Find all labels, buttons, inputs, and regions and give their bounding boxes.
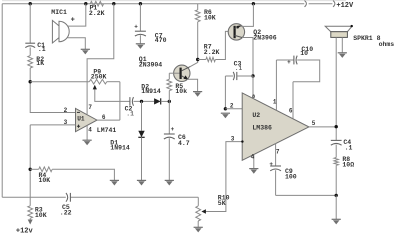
- svg-text:470: 470: [155, 37, 167, 44]
- svg-text:1: 1: [273, 98, 277, 105]
- wire +12V top rail: [2, 3, 332, 5]
- svg-text:SPKR1 8: SPKR1 8: [353, 35, 380, 42]
- ground MIC1: [81, 49, 90, 54]
- svg-text:LM386: LM386: [252, 124, 272, 131]
- wire U1 pin4 to ground: [86, 126, 88, 141]
- ground D1: [137, 180, 146, 185]
- svg-text:4.7: 4.7: [178, 140, 190, 147]
- svg-text:10: 10: [300, 50, 308, 57]
- svg-text:7: 7: [88, 104, 92, 111]
- transistor Q2: [228, 24, 277, 42]
- wire R3 arrow to +12v: [28, 218, 33, 224]
- wire rail to R3: [29, 197, 31, 206]
- resistor R3: [28, 206, 47, 219]
- node +12v label: [16, 227, 34, 235]
- svg-text:+: +: [171, 126, 175, 133]
- svg-text:2: 2: [230, 103, 234, 110]
- wire node to C6: [168, 101, 170, 134]
- wire Q1 collector: [190, 60, 198, 67]
- wire U2 pin6 up: [292, 82, 294, 119]
- wire U1 output pin6: [97, 82, 120, 120]
- wire C4 to R8: [335, 145, 337, 158]
- svg-text:250K: 250K: [91, 73, 107, 80]
- node junction R5/C6 tap: [168, 100, 171, 103]
- wire P9 wiper: [93, 85, 130, 102]
- node junction R6/R7/Q1: [196, 58, 199, 61]
- node U1 pin3 label: [64, 119, 68, 126]
- wire C10 to pin6: [293, 60, 320, 82]
- capacitor C6: [164, 126, 190, 147]
- node U2 pin1 label: [273, 98, 277, 105]
- svg-text:6: 6: [102, 114, 106, 121]
- wire D2 to R5 node: [161, 100, 170, 102]
- wire U2 pin4 to ground: [253, 154, 255, 168]
- node junction output/speaker: [335, 125, 338, 128]
- node U1 pin2 label: [64, 107, 68, 114]
- resistor P1: [89, 1, 105, 17]
- svg-text:10k: 10k: [175, 88, 187, 95]
- wire U2 pin2: [225, 108, 242, 110]
- wire collector node to U2 pin8: [252, 76, 254, 99]
- wire node to R7: [198, 59, 206, 61]
- svg-text:+12v: +12v: [16, 227, 34, 235]
- node U2 pin3 label: [231, 136, 235, 143]
- wire C9 to bottom node: [275, 170, 277, 195]
- op-amp U2: [242, 93, 309, 160]
- wire D1 to ground: [141, 137, 143, 180]
- node junction C3/pin8: [251, 74, 254, 77]
- capacitor C3: [233, 60, 242, 80]
- node junction top rail at Q2 emitter: [252, 2, 255, 5]
- ground C7: [136, 44, 145, 49]
- wire bottom rail: [2, 196, 198, 198]
- node U2 pin8 label: [252, 94, 255, 100]
- wire U2 pin3 from R10 wiper: [206, 142, 243, 212]
- resistor R7: [204, 43, 220, 61]
- wire C7 to ground: [139, 35, 141, 44]
- svg-text:100: 100: [285, 174, 297, 181]
- node U2 pin4 label: [251, 153, 255, 160]
- wire R2 to U1 pin2: [30, 68, 75, 113]
- wire C3 left: [225, 76, 233, 109]
- wire C6 to ground: [168, 138, 170, 180]
- node U2 pin2 label: [230, 103, 234, 110]
- wire C2 to D2: [134, 100, 155, 102]
- svg-text:6: 6: [289, 108, 293, 115]
- wire P9 right terminal: [107, 81, 120, 83]
- wire R7 to Q2 base: [215, 31, 233, 59]
- svg-text:.1: .1: [235, 65, 243, 72]
- node junction R4 tap: [29, 168, 32, 171]
- node U2 pin5 label: [312, 120, 316, 127]
- svg-text:7: 7: [276, 148, 280, 155]
- wire R10 wiper arrow: [201, 209, 206, 213]
- wire Q1 emitter to ground: [187, 79, 198, 91]
- wire R8 to bottom node: [335, 165, 337, 195]
- wire Q2 emitter to rail: [241, 4, 253, 27]
- wire R10 to ground: [197, 221, 199, 227]
- svg-text:1N914: 1N914: [110, 145, 130, 152]
- svg-text:2N3904: 2N3904: [139, 61, 163, 68]
- node +12V off-page connector arcs: [305, 1, 335, 7]
- node junction P9 left tap: [29, 80, 32, 83]
- svg-text:4: 4: [88, 127, 92, 134]
- wire MIC1 plus terminal to rail: [67, 4, 85, 26]
- svg-text:.1: .1: [38, 46, 46, 53]
- node junction U2 pin2: [224, 107, 227, 110]
- svg-text:MIC1: MIC1: [51, 9, 67, 16]
- node junction top rail at C1: [29, 2, 32, 5]
- svg-text:5: 5: [312, 120, 316, 127]
- capacitor C4: [331, 139, 353, 151]
- wire D1 from node: [141, 101, 143, 130]
- capacitor C7: [134, 24, 166, 44]
- wire U2 pin1 up: [275, 60, 277, 110]
- wire U1 pin3 input: [30, 125, 75, 197]
- wire speaker right lead: [341, 37, 343, 52]
- svg-text:10K: 10K: [35, 212, 47, 219]
- wire speaker left lead down: [335, 37, 337, 140]
- capacitor C9: [269, 161, 296, 181]
- svg-text:+: +: [71, 16, 75, 24]
- wire node to R5: [168, 91, 170, 102]
- wire R6 to collector node: [197, 22, 199, 60]
- op-amp U1: [76, 108, 117, 133]
- wire C1 to R2: [29, 47, 31, 55]
- ground R4: [110, 180, 119, 185]
- ground bottom-right: [332, 219, 341, 224]
- node junction D1 tap: [140, 100, 143, 103]
- svg-text:3: 3: [64, 119, 68, 126]
- svg-text:ohms: ohms: [379, 41, 395, 48]
- microphone MIC1: [51, 9, 75, 43]
- capacitor C5: [60, 193, 72, 217]
- wire C3 right: [237, 75, 253, 77]
- svg-text:.1: .1: [126, 111, 134, 118]
- diode D2: [141, 84, 161, 105]
- wire R5 to Q1 base: [168, 73, 170, 79]
- svg-text:+12V: +12V: [336, 2, 354, 10]
- wire C7 branch from rail: [139, 4, 141, 32]
- node +12V label: [336, 2, 354, 10]
- resistor P9: [89, 68, 107, 84]
- wire bottom-right horizontal: [276, 194, 337, 196]
- ground C6: [165, 180, 174, 185]
- svg-text:2.2K: 2.2K: [204, 49, 220, 56]
- node U2 pin7 label: [276, 148, 280, 155]
- node U1 pin4 label: [88, 127, 92, 134]
- node junction top rail at MIC1: [84, 2, 87, 5]
- svg-text:.1: .1: [345, 145, 353, 152]
- ground U2 pin4: [249, 169, 258, 174]
- svg-text:+: +: [287, 59, 291, 66]
- node junction top rail at P1 right: [112, 2, 115, 5]
- ground R10: [194, 227, 203, 232]
- wire P9 left terminal: [30, 81, 89, 83]
- node U1 pin7 label: [88, 104, 92, 111]
- svg-text:+: +: [269, 161, 273, 168]
- node junction bottom-right: [335, 194, 338, 197]
- svg-text:U2: U2: [252, 112, 260, 119]
- svg-text:LM741: LM741: [97, 127, 117, 134]
- svg-text:2N3906: 2N3906: [253, 35, 277, 42]
- svg-text:2: 2: [64, 107, 68, 114]
- wire MIC1 minus terminal: [67, 38, 85, 50]
- svg-text:1K: 1K: [36, 60, 44, 67]
- capacitor C10: [276, 46, 313, 66]
- wire Q2 collector down: [242, 38, 253, 77]
- node U2 pin3 edge dot: [241, 140, 243, 142]
- wire R4 to ground: [52, 169, 114, 180]
- svg-text:4: 4: [251, 153, 255, 160]
- resistor R8: [334, 156, 354, 168]
- svg-text:10K: 10K: [204, 14, 216, 21]
- resistor R10: [196, 195, 230, 221]
- svg-text:2.2K: 2.2K: [89, 10, 105, 17]
- wire C1 branch from rail: [29, 4, 31, 44]
- node U2 pin6 label: [289, 108, 293, 115]
- node junction top rail at C7: [139, 2, 142, 5]
- wire bottom node to ground: [335, 195, 337, 219]
- svg-text:10Ω: 10Ω: [342, 162, 354, 169]
- resistor R4: [39, 167, 53, 184]
- wire rail to R6: [197, 4, 199, 10]
- ground U1 pin4: [83, 140, 92, 145]
- wire U1 pin7 to rail: [87, 4, 114, 115]
- capacitor C2: [125, 97, 135, 118]
- diode D1: [110, 131, 144, 152]
- svg-text:10K: 10K: [39, 177, 51, 184]
- ground U2 pin2: [221, 113, 230, 118]
- wire left rail: [1, 4, 3, 198]
- svg-text:3: 3: [231, 136, 235, 143]
- ground Q1 emitter: [193, 92, 202, 97]
- wire node to R4: [30, 168, 39, 170]
- resistor R5: [167, 79, 187, 95]
- resistor R2: [28, 56, 44, 68]
- speaker SPKR1: [325, 25, 394, 48]
- resistor R6: [195, 9, 216, 22]
- wire rail corner to R10: [197, 197, 199, 206]
- ground speaker: [338, 53, 347, 58]
- svg-text:+: +: [134, 24, 138, 31]
- svg-text:5K: 5K: [218, 200, 226, 207]
- svg-text:U1: U1: [77, 116, 85, 123]
- transistor Q1: [139, 56, 190, 82]
- capacitor C1: [25, 42, 46, 53]
- wire U2 pin5 output: [309, 126, 336, 128]
- wire U2 pin7 down: [275, 143, 277, 166]
- svg-text:1N914: 1N914: [141, 88, 161, 95]
- node U1 pin6 label: [102, 114, 106, 121]
- svg-text:.22: .22: [60, 209, 72, 216]
